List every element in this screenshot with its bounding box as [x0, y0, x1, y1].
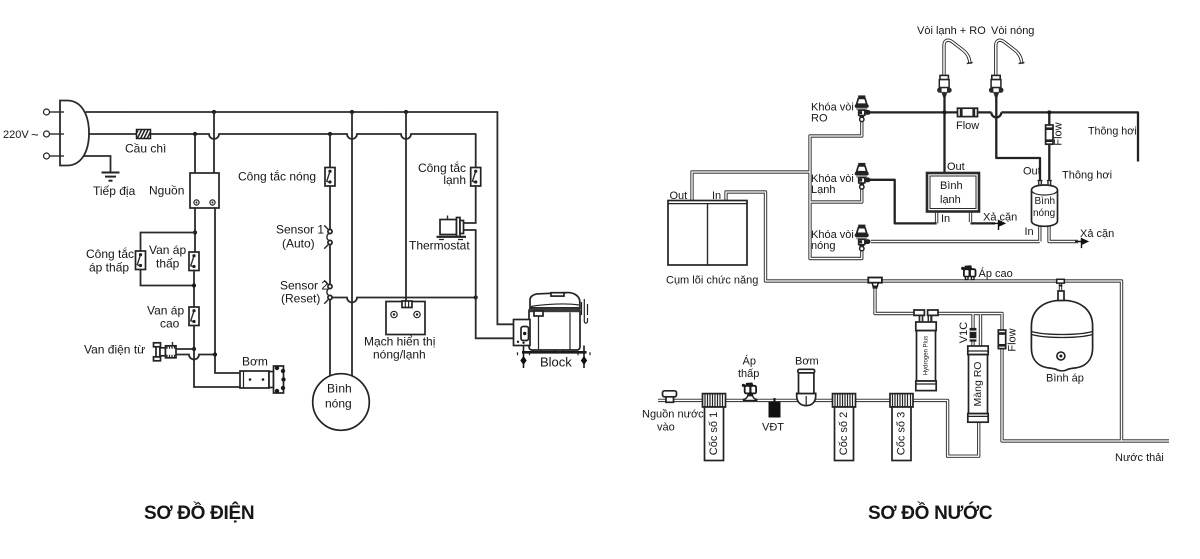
wire drop x406: [405, 112, 407, 301]
wire control line with hop: [332, 298, 476, 303]
svg-text:thấp: thấp: [156, 257, 180, 271]
svg-text:Cụm lõi chức năng: Cụm lõi chức năng: [666, 275, 758, 287]
svg-text:220V: 220V: [3, 129, 29, 141]
wire sensor2 to heater: [329, 300, 331, 376]
pressure switch Áp cao: [961, 265, 1013, 280]
svg-text:Bình: Bình: [940, 180, 963, 192]
svg-text:Bơm: Bơm: [242, 355, 268, 369]
svg-text:V1C: V1C: [958, 322, 970, 343]
wire cold branch down: [475, 134, 477, 168]
plug 220V: [3, 101, 89, 166]
wire Bình lạnh drain: [971, 222, 996, 224]
svg-text:Out: Out: [947, 161, 965, 173]
wire faucet2 to Bình nóng Out: [996, 93, 1040, 181]
svg-text:Xả cặn: Xả cặn: [1080, 228, 1114, 240]
svg-text:In: In: [1025, 226, 1034, 238]
valve Khóa vòi RO: [811, 95, 871, 124]
sensor S2 (Reset): [280, 279, 332, 306]
svg-text:Hydrogen Plus: Hydrogen Plus: [924, 336, 930, 375]
valve Khóa vòi nóng: [811, 225, 871, 252]
wire to sensor1: [329, 186, 331, 229]
svg-text:Van áp: Van áp: [149, 243, 186, 257]
node f1: [943, 110, 947, 114]
drain symbol Xả cặn lạnh: [992, 221, 1005, 230]
node on L1 at x214: [212, 110, 216, 114]
wire solenoid top: [176, 348, 194, 350]
svg-text:Áp cao: Áp cao: [979, 267, 1013, 280]
wire faucet main line with hop: [866, 112, 1138, 161]
svg-text:~: ~: [31, 127, 39, 142]
wire top line L1: [86, 111, 497, 113]
svg-text:Cốc số 1: Cốc số 1: [708, 412, 720, 455]
svg-text:Bơm: Bơm: [795, 356, 819, 368]
node B: [192, 283, 196, 287]
svg-text:Van áp: Van áp: [147, 304, 184, 318]
filter bank Cụm lõi chức năng: [666, 190, 758, 287]
svg-text:Màng RO: Màng RO: [972, 362, 984, 407]
vertical Flow fitting (vent): [1045, 122, 1064, 145]
svg-text:Tiếp địa: Tiếp địa: [93, 184, 136, 198]
wire rejoin: [141, 270, 195, 308]
svg-text:Vòi nóng: Vòi nóng: [991, 25, 1034, 37]
svg-text:Công tắc: Công tắc: [86, 246, 134, 261]
filter Cốc số 1: [703, 394, 726, 461]
svg-text:Sensor 1: Sensor 1: [276, 223, 324, 237]
svg-text:Nước thải: Nước thải: [1115, 452, 1164, 464]
svg-text:Out: Out: [1023, 166, 1041, 178]
node L1-x352: [350, 110, 354, 114]
svg-text:Vòi lạnh + RO: Vòi lạnh + RO: [917, 25, 986, 37]
svg-text:Van điện từ: Van điện từ: [84, 343, 145, 357]
svg-text:In: In: [941, 213, 950, 225]
membrane Màng RO: [968, 346, 988, 422]
pump Bơm: [240, 355, 286, 394]
tee fitting Bình áp: [1057, 279, 1065, 286]
thermostat: [409, 216, 470, 253]
solenoid VĐT: [762, 398, 784, 434]
pipe network (double-line): [658, 121, 1169, 456]
node L2-x330: [328, 132, 332, 136]
svg-text:(Reset): (Reset): [281, 292, 320, 306]
svg-text:Mạch hiển thị: Mạch hiển thị: [364, 335, 435, 349]
compressor Block: [514, 293, 591, 370]
switch Công tắc nóng: [238, 168, 335, 187]
svg-text:nóng: nóng: [325, 397, 352, 411]
svg-text:Cốc số 3: Cốc số 3: [895, 412, 907, 455]
filter Cốc số 2: [833, 394, 856, 461]
wire drop x352: [351, 112, 353, 378]
svg-text:lạnh: lạnh: [443, 173, 466, 187]
valve Van áp cao: [147, 304, 199, 331]
pressure switch Áp thấp: [738, 355, 759, 401]
svg-text:Block: Block: [540, 355, 572, 370]
wire Nguồn feeders: [195, 112, 214, 173]
wire from Nguồn left down: [194, 208, 196, 252]
switch Công tắc áp thấp: [86, 246, 146, 275]
wire cold valve to Bình lạnh In: [870, 180, 937, 224]
svg-text:Bình áp: Bình áp: [1046, 373, 1084, 385]
valve Van áp thấp (switch): [149, 243, 199, 271]
svg-text:Áp: Áp: [743, 355, 756, 368]
svg-text:cao: cao: [160, 317, 180, 331]
svg-text:Thông hơi: Thông hơi: [1062, 170, 1112, 182]
svg-text:Công tắc nóng: Công tắc nóng: [238, 169, 316, 184]
node C: [192, 347, 196, 351]
wire Bình nóng vent riser: [1048, 112, 1050, 181]
drain symbol Xả cặn nóng: [1075, 239, 1088, 248]
wire solenoid bottom with hop: [176, 355, 215, 360]
svg-text:Thông hơi: Thông hơi: [1088, 126, 1137, 138]
svg-text:Bình: Bình: [327, 382, 352, 396]
node A: [193, 230, 197, 234]
svg-text:Cốc số 2: Cốc số 2: [838, 412, 850, 455]
svg-text:Sensor 2: Sensor 2: [280, 279, 328, 293]
check valve V1C: [958, 322, 976, 343]
node on L2 at x195: [193, 132, 197, 136]
valve Khóa vòi Lạnh: [811, 163, 871, 196]
svg-text:áp thấp: áp thấp: [89, 261, 129, 275]
power supply Nguồn: [149, 173, 219, 208]
svg-text:lạnh: lạnh: [940, 194, 961, 206]
svg-text:vào: vào: [657, 422, 675, 434]
svg-text:Thermostat: Thermostat: [409, 239, 470, 253]
wire right drop to block: [497, 112, 515, 324]
svg-text:thấp: thấp: [738, 368, 759, 380]
svg-text:Bình: Bình: [1035, 196, 1056, 207]
svg-text:Nguồn nước: Nguồn nước: [642, 409, 704, 421]
sensor S1 (Auto): [276, 223, 332, 251]
filter Cốc số 3: [890, 394, 913, 461]
tank Bình áp: [1031, 291, 1092, 385]
svg-text:SƠ ĐỒ NƯỚC: SƠ ĐỒ NƯỚC: [868, 502, 993, 524]
wire from Nguồn right down to pump: [215, 208, 240, 373]
faucet Vòi nóng: [989, 25, 1035, 103]
wire to thermostat: [464, 186, 516, 338]
wire to sensor2: [329, 245, 331, 285]
svg-text:Flow: Flow: [956, 120, 979, 132]
solenoid Van điện từ: [84, 342, 176, 361]
svg-text:VĐT: VĐT: [762, 422, 784, 434]
fuse Cầu chì: [125, 130, 166, 156]
node D: [213, 352, 217, 356]
svg-text:Lạnh: Lạnh: [811, 184, 835, 196]
node vent: [1047, 110, 1051, 114]
display unit Mạch hiển thị nóng/lạnh: [364, 301, 435, 362]
wire hot switch branch: [329, 134, 331, 168]
switch Công tắc lạnh: [418, 160, 481, 187]
wire to pump bottom: [194, 326, 240, 388]
wire branch to low pressure switch: [141, 233, 196, 252]
svg-text:RO: RO: [811, 113, 828, 125]
svg-text:nóng: nóng: [811, 240, 835, 252]
wire faucet1 drop to Bình lạnh: [943, 93, 945, 173]
waste Flow fitting: [998, 328, 1019, 351]
tee fitting main: [868, 278, 882, 289]
svg-text:Flow: Flow: [1006, 328, 1018, 351]
svg-text:In: In: [712, 190, 721, 202]
svg-text:nóng: nóng: [1033, 208, 1055, 219]
svg-text:Nguồn: Nguồn: [149, 184, 184, 198]
svg-text:Out: Out: [670, 190, 688, 202]
tank Bình nóng (cylinder): [1023, 166, 1114, 241]
svg-text:SƠ ĐỒ ĐIỆN: SƠ ĐỒ ĐIỆN: [144, 502, 254, 524]
wire line L2 with hops: [89, 134, 476, 139]
node E: [474, 295, 478, 299]
inline Flow restrictor: [956, 108, 979, 132]
svg-text:nóng/lạnh: nóng/lạnh: [373, 348, 426, 362]
heater Bình nóng: [313, 374, 370, 431]
pump Bơm (water): [795, 356, 819, 406]
inlet fitting Nguồn nước vào: [642, 391, 704, 434]
svg-text:Xả cặn: Xả cặn: [983, 212, 1017, 224]
node L1-x406: [404, 110, 408, 114]
svg-text:Flow: Flow: [1053, 122, 1065, 145]
cartridge Hydrogen Plus: [914, 310, 938, 391]
tank Bình lạnh: [927, 161, 1017, 225]
svg-text:(Auto): (Auto): [282, 237, 315, 251]
ground Tiếp địa: [84, 156, 136, 198]
faucet Vòi lạnh + RO: [917, 25, 986, 103]
svg-text:Cầu chì: Cầu chì: [125, 142, 166, 156]
